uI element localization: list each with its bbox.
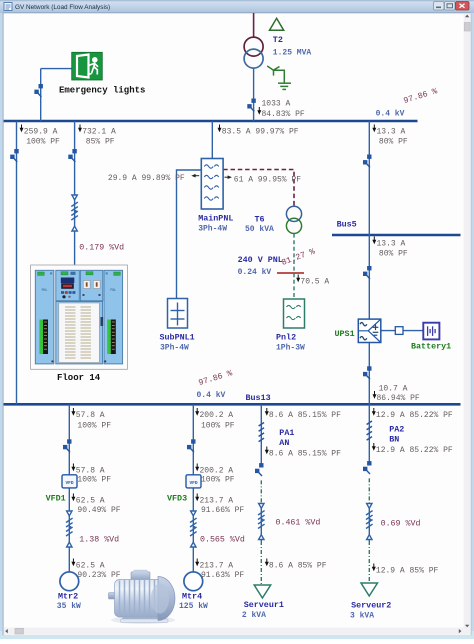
- svg-text:13.3 A: 13.3 A: [377, 240, 406, 249]
- svg-text:62.5 A: 62.5 A: [76, 497, 105, 506]
- svg-text:3 kVA: 3 kVA: [350, 612, 374, 621]
- svg-text:10.7 A: 10.7 A: [379, 385, 408, 394]
- svg-text:UPS1: UPS1: [335, 329, 355, 339]
- svg-text:213.7 A: 213.7 A: [200, 562, 234, 571]
- svg-text:86.94% PF: 86.94% PF: [377, 394, 420, 403]
- svg-text:Mtr4: Mtr4: [182, 592, 202, 602]
- svg-text:PA2: PA2: [389, 425, 404, 435]
- svg-text:91.63% PF: 91.63% PF: [201, 571, 244, 580]
- svg-text:213.7 A: 213.7 A: [200, 497, 234, 506]
- svg-text:1Ph-3W: 1Ph-3W: [276, 344, 305, 353]
- svg-text:Pnl2: Pnl2: [276, 333, 296, 343]
- svg-text:Serveur2: Serveur2: [351, 601, 391, 611]
- svg-text:91.66% PF: 91.66% PF: [201, 506, 244, 515]
- svg-text:85% PF: 85% PF: [86, 138, 115, 147]
- svg-text:90.23% PF: 90.23% PF: [77, 571, 120, 580]
- svg-text:VFD: VFD: [65, 480, 73, 486]
- svg-text:PNL: PNL: [42, 288, 48, 292]
- svg-text:BN: BN: [389, 435, 399, 445]
- svg-text:PA1: PA1: [279, 428, 294, 438]
- svg-text:0.4 kV: 0.4 kV: [197, 391, 226, 400]
- svg-text:PNL: PNL: [110, 288, 116, 292]
- svg-text:0.4 kV: 0.4 kV: [376, 110, 405, 119]
- svg-text:57.8 A: 57.8 A: [76, 411, 105, 420]
- svg-text:100% PF: 100% PF: [26, 138, 60, 147]
- svg-text:62.5 A: 62.5 A: [76, 562, 105, 571]
- svg-text:240 V PNL: 240 V PNL: [238, 255, 283, 265]
- svg-text:MainPNL: MainPNL: [198, 214, 233, 224]
- svg-text:3Ph-4W: 3Ph-4W: [160, 344, 189, 353]
- svg-text:AN: AN: [279, 438, 289, 448]
- svg-text:VFD1: VFD1: [46, 494, 66, 504]
- svg-text:259.9 A: 259.9 A: [24, 128, 58, 137]
- svg-text:80% PF: 80% PF: [379, 250, 408, 259]
- svg-text:12.9 A 85.22% PF: 12.9 A 85.22% PF: [376, 446, 453, 455]
- svg-text:0.565 %Vd: 0.565 %Vd: [200, 535, 245, 545]
- svg-text:8.6 A 85.15% PF: 8.6 A 85.15% PF: [269, 411, 341, 420]
- svg-text:84.83% PF: 84.83% PF: [262, 110, 305, 119]
- svg-text:57.8 A: 57.8 A: [76, 467, 105, 476]
- svg-text:Mtr2: Mtr2: [58, 592, 78, 602]
- svg-text:Emergency lights: Emergency lights: [59, 86, 145, 96]
- svg-text:Bus13: Bus13: [246, 393, 271, 403]
- svg-text:1033 A: 1033 A: [262, 100, 291, 109]
- svg-text:125 kW: 125 kW: [179, 602, 208, 611]
- svg-text:0.179 %Vd: 0.179 %Vd: [79, 243, 124, 253]
- svg-text:12.9 A 85% PF: 12.9 A 85% PF: [376, 567, 439, 576]
- svg-text:Floor 14: Floor 14: [57, 373, 101, 383]
- svg-text:SubPNL1: SubPNL1: [160, 333, 195, 343]
- svg-text:50 kVA: 50 kVA: [245, 225, 274, 234]
- svg-text:1.38 %Vd: 1.38 %Vd: [79, 535, 119, 545]
- svg-text:8.6 A 85.15% PF: 8.6 A 85.15% PF: [269, 450, 341, 459]
- svg-text:100% PF: 100% PF: [201, 476, 235, 485]
- svg-text:732.1 A: 732.1 A: [82, 128, 116, 137]
- svg-text:T2: T2: [273, 35, 283, 45]
- svg-text:Bus5: Bus5: [337, 220, 357, 230]
- svg-text:1.25 MVA: 1.25 MVA: [273, 49, 312, 58]
- svg-text:100% PF: 100% PF: [201, 422, 235, 431]
- svg-text:GV Network (Load Flow Analysis: GV Network (Load Flow Analysis): [15, 4, 110, 11]
- svg-text:80% PF: 80% PF: [379, 138, 408, 147]
- svg-text:100% PF: 100% PF: [77, 476, 111, 485]
- svg-text:VFD: VFD: [189, 480, 197, 486]
- svg-text:70.5 A: 70.5 A: [300, 278, 329, 287]
- svg-text:35 kW: 35 kW: [57, 602, 81, 611]
- svg-text:0.69 %Vd: 0.69 %Vd: [381, 519, 421, 529]
- svg-text:83.5 A 99.97% PF: 83.5 A 99.97% PF: [222, 128, 299, 137]
- svg-text:T6: T6: [255, 215, 265, 225]
- svg-text:Battery1: Battery1: [411, 342, 451, 352]
- svg-text:90.49% PF: 90.49% PF: [77, 506, 120, 515]
- svg-text:3Ph-4W: 3Ph-4W: [198, 225, 227, 234]
- svg-text:2 kVA: 2 kVA: [242, 611, 266, 620]
- svg-text:8.6 A 85% PF: 8.6 A 85% PF: [269, 562, 327, 571]
- svg-text:0.461 %Vd: 0.461 %Vd: [276, 518, 321, 528]
- svg-text:100% PF: 100% PF: [77, 422, 111, 431]
- svg-text:12.9 A 85.22% PF: 12.9 A 85.22% PF: [376, 411, 453, 420]
- svg-text:VFD3: VFD3: [167, 494, 187, 504]
- svg-text:61 A 99.95% PF: 61 A 99.95% PF: [234, 176, 301, 185]
- svg-text:0.24 kV: 0.24 kV: [238, 268, 272, 277]
- svg-text:200.2 A: 200.2 A: [200, 467, 234, 476]
- svg-text:Serveur1: Serveur1: [244, 600, 284, 610]
- svg-text:29.9 A 99.89% PF: 29.9 A 99.89% PF: [108, 174, 185, 183]
- svg-text:200.2 A: 200.2 A: [200, 411, 234, 420]
- svg-text:13.3 A: 13.3 A: [377, 128, 406, 137]
